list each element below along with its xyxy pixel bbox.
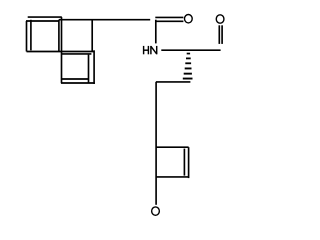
- ring S1 top edge: [26, 20, 59, 22]
- ring S4 top edge: [156, 146, 188, 148]
- ring S3 bottom edge: [61, 82, 95, 84]
- wire: S2 top edge continuing to amide carbonyl: [59, 19, 150, 21]
- amide C=O upper line: [155, 16, 183, 18]
- chain vertical bond through ring S4 to O: [155, 82, 157, 205]
- chain bend horizontal bond: [156, 81, 191, 83]
- ring S1 top double-bond line: [28, 16, 62, 18]
- label HN (vector glyphs): [144, 46, 157, 54]
- label O (bottom, vector glyph): [152, 207, 160, 215]
- ring S1 left inner double-bond line: [30, 20, 32, 51]
- ring S1 left edge: [26, 21, 28, 52]
- ring S4 right edge: [188, 147, 190, 178]
- label O (amide carbonyl, vector glyph): [185, 15, 193, 23]
- aldehyde C=O line 2: [221, 25, 223, 44]
- label O (aldehyde, vector glyph): [216, 15, 224, 23]
- ring S3 top edge: [62, 53, 92, 55]
- aldehyde C=O line 1: [218, 25, 220, 44]
- amide C-N bond: [155, 20, 157, 44]
- ring S4 right inner double-bond line: [183, 149, 185, 176]
- ring S4 bottom edge: [156, 176, 188, 178]
- ring S3 right edge: [93, 50, 95, 84]
- amide C=O lower line: [155, 20, 183, 22]
- ring S1-S2 bottom edge: [27, 51, 94, 53]
- ring S3 right inner double-bond line: [88, 55, 90, 83]
- bond N to stereocenter to aldehyde C: [161, 49, 220, 51]
- hashed wedge bond (stereo): [183, 53, 193, 80]
- ring S3 bottom inner double-bond line: [62, 78, 89, 80]
- ring S1 right edge: [58, 20, 60, 52]
- ring S2-S3 right edge: [91, 20, 93, 52]
- ring S2-S3 left edge: [61, 17, 63, 83]
